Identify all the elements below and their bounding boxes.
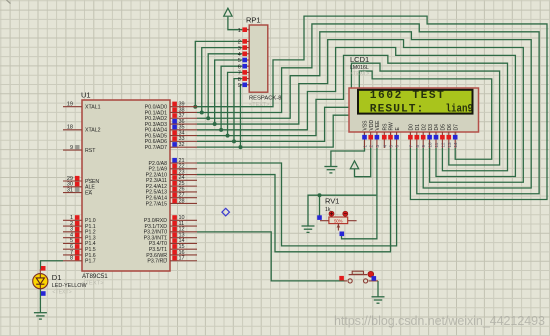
svg-text:D0: D0 — [409, 124, 415, 131]
svg-text:7: 7 — [408, 145, 413, 148]
svg-text:1: 1 — [363, 145, 368, 148]
svg-text:https://blog.csdn.net/weixin_4: https://blog.csdn.net/weixin_44212493 — [334, 314, 545, 328]
svg-text:50%: 50% — [334, 219, 343, 224]
svg-text:8: 8 — [238, 77, 241, 83]
svg-text:13: 13 — [447, 142, 452, 148]
svg-text:4: 4 — [382, 145, 387, 148]
svg-text:18: 18 — [67, 125, 73, 131]
svg-text:32: 32 — [179, 142, 185, 148]
svg-text:RESULT:: RESULT: — [370, 103, 424, 115]
svg-text:10: 10 — [428, 142, 433, 148]
svg-text:D7: D7 — [453, 124, 459, 131]
svg-text:D3: D3 — [428, 124, 434, 131]
svg-text:U1: U1 — [81, 91, 91, 100]
svg-text:19: 19 — [67, 102, 73, 108]
svg-text:8: 8 — [415, 145, 420, 148]
svg-text:P0.7/AD7: P0.7/AD7 — [145, 145, 167, 151]
svg-text:14: 14 — [453, 142, 458, 148]
svg-text:8: 8 — [70, 256, 73, 262]
svg-text:9: 9 — [421, 145, 426, 148]
svg-text:D5: D5 — [441, 124, 447, 131]
svg-text:P2.7/A15: P2.7/A15 — [146, 201, 167, 207]
svg-text:12: 12 — [440, 142, 445, 148]
svg-text:5: 5 — [238, 58, 241, 64]
svg-text:TEST: TEST — [412, 90, 444, 102]
svg-text:D4: D4 — [434, 124, 440, 131]
svg-text:<TEXT>: <TEXT> — [52, 289, 71, 295]
svg-text:31: 31 — [67, 187, 73, 193]
svg-text:D2: D2 — [421, 124, 427, 131]
svg-text:<TEXT>: <TEXT> — [350, 71, 369, 77]
svg-text:2: 2 — [369, 145, 374, 148]
svg-text:VEE: VEE — [375, 120, 381, 131]
svg-text:VSS: VSS — [363, 120, 369, 131]
svg-text:EA: EA — [85, 190, 92, 196]
svg-text:AT89C51: AT89C51 — [82, 273, 108, 280]
svg-text:LED-YELLOW: LED-YELLOW — [52, 283, 88, 289]
svg-text:1: 1 — [238, 28, 241, 34]
svg-text:1602: 1602 — [370, 90, 402, 102]
svg-text:LCD1: LCD1 — [350, 55, 369, 64]
svg-text:LM016L: LM016L — [350, 65, 369, 71]
svg-text:28: 28 — [179, 198, 185, 204]
svg-text:9: 9 — [238, 83, 241, 89]
svg-text:XTAL2: XTAL2 — [85, 128, 101, 134]
svg-text:RST: RST — [85, 148, 96, 154]
svg-text:P3.7/RD: P3.7/RD — [147, 259, 167, 265]
svg-text:RW: RW — [389, 122, 395, 131]
svg-text:3: 3 — [238, 46, 241, 52]
svg-text:RESPACK-8: RESPACK-8 — [249, 95, 281, 101]
svg-text:4: 4 — [238, 52, 241, 58]
svg-text:VDD: VDD — [369, 120, 375, 131]
svg-text:<TEXT>: <TEXT> — [249, 102, 269, 108]
svg-text:5: 5 — [389, 145, 394, 148]
svg-text:D1: D1 — [52, 273, 62, 282]
svg-text:lian9: lian9 — [446, 103, 474, 115]
svg-text:6: 6 — [395, 145, 400, 148]
svg-text:17: 17 — [179, 256, 185, 262]
svg-text:→: → — [335, 212, 340, 217]
svg-text:7: 7 — [238, 71, 241, 77]
svg-text:P1.7: P1.7 — [85, 259, 96, 265]
svg-text:RS: RS — [383, 123, 389, 131]
svg-text:D1: D1 — [415, 124, 421, 131]
svg-text:3: 3 — [375, 145, 380, 148]
svg-text:11: 11 — [434, 142, 439, 147]
svg-text:6: 6 — [238, 64, 241, 70]
svg-text:XTAL1: XTAL1 — [85, 105, 101, 111]
svg-text:2: 2 — [238, 40, 241, 46]
svg-text:9: 9 — [70, 145, 73, 151]
svg-text:RV1: RV1 — [325, 197, 339, 206]
svg-text:RP1: RP1 — [246, 15, 261, 24]
svg-text:D6: D6 — [447, 124, 453, 131]
